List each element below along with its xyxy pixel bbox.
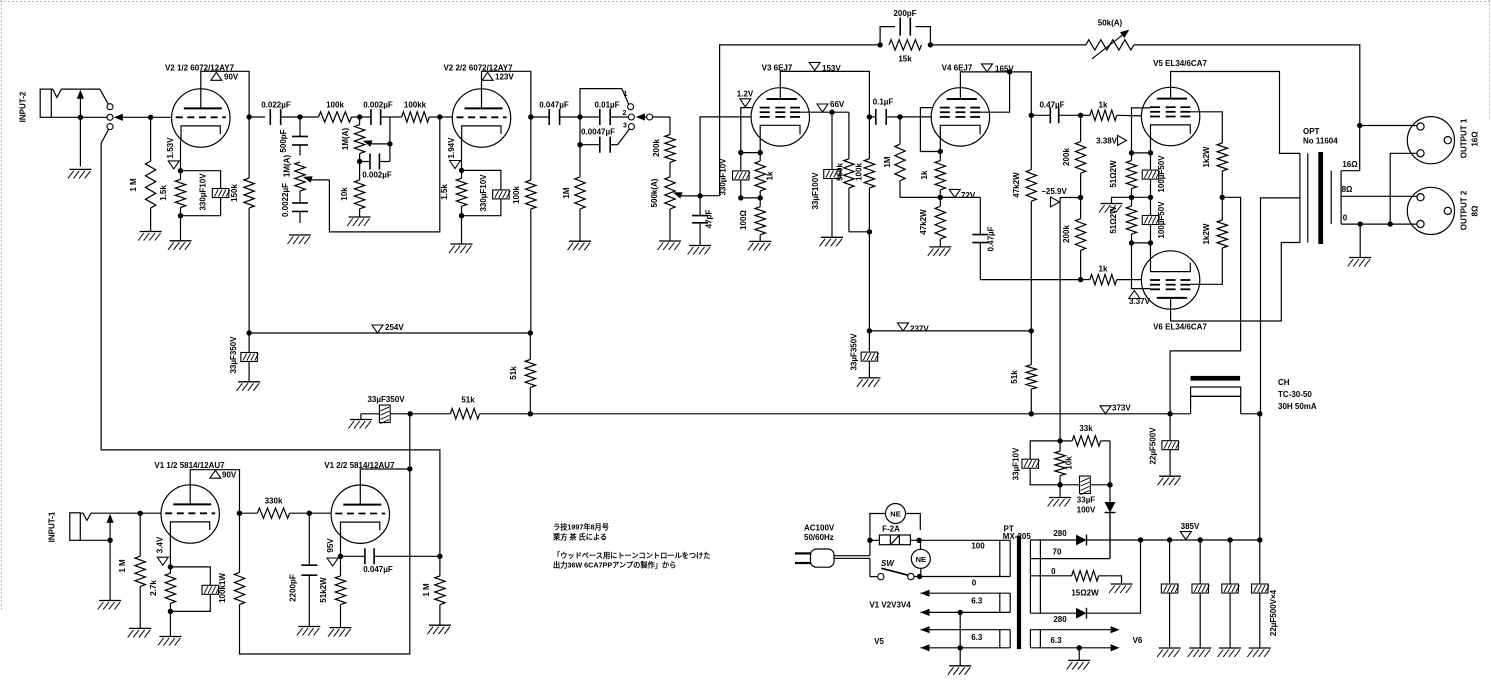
rotary contact 1 <box>628 104 634 110</box>
svg-text:No 11604: No 11604 <box>1303 137 1338 146</box>
svg-text:330k: 330k <box>265 497 283 506</box>
capacitor 330uF10V (V3 cathode) <box>740 153 742 171</box>
potentiometer 1M(A) #1 <box>295 162 305 191</box>
svg-text:8Ω: 8Ω <box>1471 205 1480 216</box>
svg-text:8Ω: 8Ω <box>1342 185 1353 194</box>
svg-text:栗方 茶 氏による: 栗方 茶 氏による <box>553 533 607 542</box>
svg-text:6.3: 6.3 <box>971 597 983 606</box>
svg-text:1 M: 1 M <box>129 178 138 192</box>
node 254V left <box>246 330 251 335</box>
resistor 51k2W <box>335 576 345 605</box>
ground (filter 3) <box>1219 647 1241 649</box>
wire V3 cathode <box>759 140 761 153</box>
capacitor 100uF50V (upper) <box>1150 153 1152 170</box>
svg-text:385V: 385V <box>1181 522 1200 531</box>
svg-text:100: 100 <box>971 542 985 551</box>
svg-text:6.3: 6.3 <box>971 633 983 642</box>
capacitor 33uF10V (bias) <box>1030 441 1060 459</box>
svg-text:1k2W: 1k2W <box>1202 146 1211 167</box>
marker 373V <box>1100 406 1111 414</box>
wire heater ground <box>959 612 961 665</box>
node V4 cathode <box>938 149 943 154</box>
svg-text:0: 0 <box>1343 214 1348 223</box>
wire rail after choke <box>1241 413 1260 415</box>
svg-text:出力36W 6CA7PPアンプの製作」から: 出力36W 6CA7PPアンプの製作」から <box>553 561 676 570</box>
svg-text:1.94V: 1.94V <box>447 137 456 159</box>
svg-text:2200pF: 2200pF <box>289 574 298 602</box>
wire V1 2/2 cathode <box>340 537 342 556</box>
svg-text:1M: 1M <box>562 187 571 198</box>
svg-text:95V: 95V <box>326 538 335 553</box>
wire grid to tube <box>151 116 172 118</box>
wire V2 2/2 cathode <box>461 141 463 171</box>
cord <box>834 555 870 557</box>
svg-text:2: 2 <box>623 110 627 117</box>
wire to ground <box>180 216 182 241</box>
svg-text:330µF10V: 330µF10V <box>199 173 208 211</box>
ground (1M grid) <box>140 231 162 233</box>
svg-text:280: 280 <box>1053 615 1067 624</box>
resistor 15k <box>889 40 922 50</box>
resistor 47k2W (V4 plate) <box>1030 115 1032 169</box>
marker 254V <box>372 325 383 333</box>
wire V1 1/2 plate <box>190 470 239 514</box>
capacitor 33uF100V (bias) <box>1060 484 1079 486</box>
svg-text:1M: 1M <box>883 156 892 167</box>
ground (input-1) <box>99 600 121 602</box>
svg-text:150k: 150k <box>230 184 239 202</box>
wire primary top <box>919 539 1010 541</box>
node V3 k mid <box>738 195 743 200</box>
tap 0ohm <box>1341 223 1417 225</box>
node 0-gnd <box>1358 221 1363 226</box>
node 0-xlr1 <box>1388 221 1393 226</box>
resistor 51k (rail) <box>410 413 450 415</box>
node bias diode top <box>1107 482 1112 487</box>
ground (47pF) <box>689 245 711 247</box>
node bias top <box>1057 438 1062 443</box>
resistor 560k (screen) <box>848 112 850 159</box>
svg-text:ラ技1997年8月号: ラ技1997年8月号 <box>553 523 609 532</box>
wire V5 g3 <box>1132 108 1151 153</box>
node 16ohm <box>1357 123 1362 128</box>
resistor 1.5k (V2 1/2 cathode) <box>175 179 185 207</box>
node rail-V1 <box>408 411 413 416</box>
wire V1 1/2 cathode <box>169 537 171 567</box>
ground (0.0022uF) <box>289 234 311 236</box>
marker 3.37V <box>1129 291 1140 299</box>
node cathode V1 1/2 <box>168 564 173 569</box>
wire V2 2/2 plate <box>482 71 531 117</box>
capacitor 0.1uF <box>869 116 876 118</box>
svg-text:1k: 1k <box>766 171 775 180</box>
node grid V1 2/2 <box>307 511 312 516</box>
svg-text:123V: 123V <box>495 73 514 82</box>
resistor 1k (V3 cathode) <box>755 161 765 191</box>
switch contact 3 (input-2) <box>107 124 113 130</box>
wire screens to rail <box>1170 197 1241 413</box>
marker 72V <box>949 189 960 197</box>
node fb2 <box>928 42 933 47</box>
ground (V3 cathode) <box>749 240 771 242</box>
node mid k rail <box>1129 195 1134 200</box>
node 72V <box>938 195 943 200</box>
resistor 200k (bias upper) <box>1080 115 1082 141</box>
resistor 1M (switch leak) <box>579 145 581 177</box>
node A1 <box>297 114 302 119</box>
svg-text:47k2W: 47k2W <box>919 209 928 235</box>
svg-text:100µF50V: 100µF50V <box>1157 155 1166 193</box>
resistor 100ohm (V3) <box>755 207 765 235</box>
svg-text:51k2W: 51k2W <box>319 577 328 603</box>
svg-text:0.01µF: 0.01µF <box>594 101 619 110</box>
node D2 <box>577 142 582 147</box>
capacitor 33uF350V (254V) <box>248 333 250 352</box>
capacitor 330uF10V (V2 2/2 cathode) <box>462 170 501 189</box>
node cathode bottom V2 1/2 <box>178 213 183 218</box>
ground (15ohm) <box>1111 583 1133 585</box>
triode V1 2/2 <box>331 485 389 543</box>
svg-text:1k: 1k <box>1099 265 1108 274</box>
capacitor (V1 1/2 cathode bypass) <box>170 567 210 585</box>
capacitor 500pF <box>299 117 301 137</box>
node V6 k rail <box>1129 240 1134 245</box>
svg-text:1.5k: 1.5k <box>440 184 449 200</box>
svg-text:V6: V6 <box>1133 636 1143 645</box>
svg-text:10k: 10k <box>1065 456 1074 470</box>
ground (OPT 0) <box>1349 257 1371 259</box>
svg-text:16Ω: 16Ω <box>1471 131 1480 147</box>
svg-text:SW: SW <box>881 559 895 568</box>
svg-text:1k2W: 1k2W <box>1202 223 1211 244</box>
capacitor 0.002uF #2 <box>360 161 370 163</box>
rotary select wire 1 <box>580 89 629 117</box>
transformer OPT secondary <box>1330 171 1332 224</box>
svg-text:0.1µF: 0.1µF <box>873 98 894 107</box>
resistor 100k (V3 plate load) <box>868 117 870 159</box>
ground (10k) <box>349 216 371 218</box>
svg-text:1k: 1k <box>1099 101 1108 110</box>
ground (500kA) <box>659 240 681 242</box>
marker 1.53V cathode <box>168 161 179 169</box>
marker 237V <box>898 323 909 331</box>
svg-text:100k: 100k <box>855 163 864 181</box>
svg-text:90V: 90V <box>224 73 239 82</box>
node cathode bottom V2 2/2 <box>459 213 464 218</box>
svg-text:V1 1/2 5814/12AU7: V1 1/2 5814/12AU7 <box>154 461 225 470</box>
potentiometer 50k(A) feedback <box>1086 40 1134 50</box>
svg-text:F-2A: F-2A <box>882 525 900 534</box>
wire 237V rail <box>869 330 1031 332</box>
svg-text:TC-30-50: TC-30-50 <box>1278 390 1312 399</box>
svg-text:0.002µF: 0.002µF <box>363 101 393 110</box>
svg-text:72V: 72V <box>961 191 976 200</box>
wire V3 screen <box>800 111 849 113</box>
resistor 1k (V5 grid) <box>1081 114 1090 116</box>
ground (input-2 jack) <box>69 168 91 170</box>
wire 0 to XLR1 pin3 <box>1390 153 1417 224</box>
svg-text:0.47µF: 0.47µF <box>987 226 996 251</box>
diode rectifier top <box>1030 539 1076 541</box>
triode V2 1/2 <box>172 89 230 147</box>
pentode V3 <box>751 88 809 146</box>
wire V4 plate <box>960 72 1031 115</box>
ground (V2 1/2 cathode) <box>170 240 192 242</box>
ground (1M V1) <box>129 627 151 629</box>
potentiometer 1M(A) #2 <box>359 117 361 125</box>
transformer OPT primary <box>1299 153 1301 242</box>
node heater1 <box>958 610 963 615</box>
resistor 100kk <box>402 112 430 122</box>
node D1 <box>577 114 582 119</box>
pentode V6 <box>1141 251 1199 309</box>
node heater V6 gnd <box>1077 645 1082 650</box>
wire V1 2/2 plate <box>360 469 410 485</box>
node V3 plate node <box>867 114 872 119</box>
resistor 1M (V4 grid leak) <box>899 117 901 144</box>
node input-1 sleeve <box>107 538 112 543</box>
rotary contact 2 <box>628 114 634 120</box>
svg-text:33k: 33k <box>1079 424 1093 433</box>
diode rectifier bottom <box>1030 612 1076 614</box>
svg-text:0.0022µF: 0.0022µF <box>281 183 290 217</box>
choke CH <box>1191 396 1241 413</box>
wire fb to pot <box>930 44 1085 46</box>
ground (33uF100V) <box>821 236 843 238</box>
svg-text:200k: 200k <box>652 139 661 157</box>
svg-text:0.47µF: 0.47µF <box>1039 101 1064 110</box>
tap 70V <box>1030 558 1110 560</box>
svg-text:33µF100V: 33µF100V <box>811 172 820 210</box>
svg-text:0.047µF: 0.047µF <box>363 565 393 574</box>
resistor 1M (V1 out) <box>439 556 441 576</box>
marker 90V plate <box>211 72 222 80</box>
page border <box>0 1 1491 3</box>
capacitor 47pF <box>699 196 701 216</box>
svg-text:373V: 373V <box>1112 404 1131 413</box>
svg-text:51k: 51k <box>461 396 475 405</box>
svg-text:15k: 15k <box>898 55 912 64</box>
svg-text:1.5k: 1.5k <box>159 185 168 201</box>
wire V5 screen <box>1190 112 1222 143</box>
svg-text:22µF500V: 22µF500V <box>1149 427 1158 465</box>
node 237V left <box>867 328 872 333</box>
node dropper-rail <box>1029 411 1034 416</box>
svg-text:51k: 51k <box>1010 370 1019 384</box>
svg-text:200pF: 200pF <box>893 9 916 18</box>
jack INPUT-1 <box>70 513 81 541</box>
ground (output cathodes) <box>1101 203 1123 205</box>
capacitor 22uF500V (choke) <box>1169 414 1171 441</box>
ground (V4 cathode) <box>929 246 951 248</box>
svg-text:3.38V: 3.38V <box>1096 136 1118 145</box>
wire V4 g3 to cathode <box>920 108 940 152</box>
svg-text:254V: 254V <box>385 323 404 332</box>
heater V6 top <box>1030 629 1113 631</box>
marker 385V <box>1180 532 1191 540</box>
capacitor 0.002uF #1 <box>360 116 371 118</box>
wire wiper #1 to grid node <box>329 117 439 232</box>
node 237V right <box>1029 328 1034 333</box>
svg-text:6.3: 6.3 <box>1050 636 1062 645</box>
svg-text:30H 50mA: 30H 50mA <box>1278 402 1317 411</box>
svg-text:1.53V: 1.53V <box>166 137 175 159</box>
node plate V2 1/2 <box>246 114 251 119</box>
wire OPT center tap <box>1261 198 1300 414</box>
svg-text:47pF: 47pF <box>705 210 714 229</box>
marker -25.9V <box>1060 197 1081 199</box>
transformer PT heater2 <box>999 630 1001 648</box>
svg-text:0.022µF: 0.022µF <box>261 101 291 110</box>
ground (2200pF) <box>298 626 320 628</box>
svg-text:100µF50V: 100µF50V <box>1157 201 1166 239</box>
ground (heater V6) <box>1068 659 1090 661</box>
wire V4 cathode <box>939 141 941 152</box>
svg-text:51Ω2W: 51Ω2W <box>1109 160 1118 188</box>
resistor 51k (dropper) <box>1030 331 1032 365</box>
svg-text:−25.9V: −25.9V <box>1041 187 1067 196</box>
resistor 10k (bias) <box>1059 441 1061 451</box>
svg-text:33µF350V: 33µF350V <box>229 336 238 374</box>
svg-text:V5 EL34/6CA7: V5 EL34/6CA7 <box>1153 59 1207 68</box>
wire V2 1/2 cathode <box>180 141 182 171</box>
ground (33uF350V 254V) <box>238 381 260 383</box>
capacitor 22uF500V #1 <box>1167 537 1172 542</box>
ground (filter 2) <box>1189 647 1211 649</box>
node 254V right <box>528 330 533 335</box>
svg-text:3: 3 <box>623 123 627 130</box>
transformer PT heater sec <box>1029 630 1031 648</box>
node grid V2 1/2 <box>78 115 83 120</box>
node wiper/feedback <box>697 193 702 198</box>
svg-text:33µF350V: 33µF350V <box>850 333 859 371</box>
svg-text:100V: 100V <box>1077 506 1096 515</box>
node V1 supply <box>407 466 412 471</box>
wire 385V rail <box>1141 539 1260 541</box>
resistor 47k2W (V4 cathode) <box>935 206 945 239</box>
node cathode bottom V1 1/2 <box>168 609 173 614</box>
resistor 15ohm2W (HT 0) <box>1030 575 1071 577</box>
tap 16ohm <box>1341 126 1360 171</box>
wire V3 g3 to cathode <box>741 108 752 153</box>
node CT-rail <box>1257 411 1262 416</box>
node grid V2 2/2 <box>437 114 442 119</box>
svg-text:50/60Hz: 50/60Hz <box>804 533 834 542</box>
svg-text:100Ω: 100Ω <box>739 210 748 230</box>
transformer PT core <box>1017 535 1021 649</box>
node V6 grid <box>1078 277 1083 282</box>
ground (filter 1) <box>1159 647 1181 649</box>
capacitor 2200pF <box>308 513 310 565</box>
wire 72V rail <box>900 196 980 198</box>
svg-text:3.4V: 3.4V <box>156 536 165 553</box>
ground (bias) <box>1059 485 1061 498</box>
resistor 1k (V6 grid) <box>1081 279 1090 281</box>
wire V5 cathode <box>1150 140 1152 153</box>
resistor 100k (plate load V2 2/2) <box>530 117 532 180</box>
marker 153V <box>809 62 820 70</box>
wire V3 plate <box>780 71 869 117</box>
node V4 screen tie <box>1007 69 1012 74</box>
svg-text:50k(A): 50k(A) <box>1098 19 1123 28</box>
svg-text:100kk: 100kk <box>404 101 427 110</box>
marker 1.94V cathode <box>450 161 461 169</box>
svg-text:1: 1 <box>624 91 628 98</box>
marker 95V <box>327 558 338 566</box>
wire V6 plate <box>1171 243 1300 322</box>
heater V6 bottom <box>1030 647 1113 649</box>
svg-text:15Ω2W: 15Ω2W <box>1071 589 1099 598</box>
capacitor 33uF350V (237V) <box>868 331 870 352</box>
capacitor 0.0047uF <box>580 144 600 146</box>
svg-text:3.37V: 3.37V <box>1129 297 1151 306</box>
svg-text:47k2W: 47k2W <box>1012 172 1021 198</box>
capacitor 0.047uF (V1 out) <box>341 555 365 557</box>
wire V6 screen <box>1190 248 1222 284</box>
svg-text:200k: 200k <box>1062 225 1071 243</box>
resistor 1M (V1 grid) <box>139 513 141 556</box>
svg-text:1 M: 1 M <box>118 559 127 573</box>
resistor 1M (V2 1/2 grid) <box>150 117 152 161</box>
wire CT to 385V <box>1259 414 1261 540</box>
wire 254V rail <box>249 332 530 334</box>
svg-text:V6 EL34/6CA7: V6 EL34/6CA7 <box>1153 323 1207 332</box>
node V3 supply <box>867 229 872 234</box>
wire V4 screen to plate <box>980 72 1010 112</box>
transformer PT HT secondary <box>1029 540 1031 613</box>
svg-text:1M(A): 1M(A) <box>283 155 292 178</box>
ground (filter 4) <box>1249 647 1271 649</box>
ground (1M leak) <box>569 240 591 242</box>
marker 90V (V1) <box>210 470 221 478</box>
svg-text:330µF10V: 330µF10V <box>479 174 488 212</box>
switch SW <box>878 573 884 579</box>
svg-text:100k: 100k <box>512 186 521 204</box>
capacitor 200pF <box>880 27 895 45</box>
capacitor 0.047uF <box>531 116 549 118</box>
wire feedback <box>700 45 880 196</box>
wire to ground <box>1112 197 1132 203</box>
triode V2 2/2 <box>452 89 510 147</box>
svg-text:OUTPUT 1: OUTPUT 1 <box>1460 118 1469 158</box>
svg-text:AC100V: AC100V <box>804 524 835 533</box>
svg-text:51k: 51k <box>509 366 518 380</box>
resistor 1k2W (V5 screen) <box>1217 143 1227 171</box>
svg-text:1k: 1k <box>920 170 929 179</box>
rotary wiper <box>636 113 645 120</box>
svg-text:100k1W: 100k1W <box>218 573 227 603</box>
capacitor 33uF100V (screen) <box>829 110 834 115</box>
resistor 51ohm2W (lower) <box>1126 206 1136 234</box>
node C1 <box>357 159 362 164</box>
tap 8ohm <box>1341 195 1417 197</box>
svg-text:330µF10V: 330µF10V <box>719 158 728 196</box>
svg-text:100k: 100k <box>326 101 344 110</box>
svg-text:500k(A): 500k(A) <box>650 178 659 207</box>
capacitor 0.0022uF <box>299 191 301 203</box>
ground (373V filter) <box>350 419 372 421</box>
ground (33uF350V 237V) <box>858 377 880 379</box>
node bias bottom <box>1057 482 1062 487</box>
transformer OPT core <box>1318 152 1323 244</box>
marker 1.2V <box>740 99 751 107</box>
transformer PT primary <box>999 540 1001 576</box>
svg-text:0: 0 <box>972 579 977 588</box>
node V4 plate node <box>1029 113 1034 118</box>
node fb1 <box>877 42 882 47</box>
wire to ground <box>461 216 463 244</box>
capacitor 0.022uF <box>249 116 265 118</box>
